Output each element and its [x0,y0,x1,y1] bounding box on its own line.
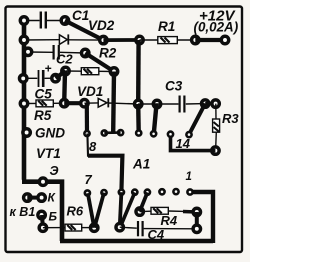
diode VD1 cathode bar [107,98,109,107]
svg-text:Б: Б [49,210,58,224]
pad ground rail C2 row [24,48,31,55]
pad ground rail VD2 row [20,36,27,43]
resistor R6 body [65,224,82,231]
svg-text:+: + [45,62,52,76]
wire base to R6 node [40,215,45,228]
pad R6 right [91,224,98,231]
pad R3 top node [212,100,219,107]
capacitor C1 leads [24,20,40,22]
pad GND node [23,129,30,136]
svg-text:C3: C3 [165,79,183,94]
svg-text:R3: R3 [222,111,239,126]
wire R1 node down to VD1 output node [136,40,141,104]
svg-text:A1: A1 [132,157,150,172]
wire junction down to A1 top pad [136,104,141,133]
svg-text:R4: R4 [161,213,178,228]
svg-text:(0,02A): (0,02A) [194,20,239,35]
pad R4 right [193,208,200,215]
wire VD2 node to R1 node [103,38,139,42]
wire pin7 to R6 right pad (diagonal) [88,193,94,228]
pad C3 left junction [153,100,160,107]
pad R2 right [110,68,117,75]
resistor R1 leads [140,39,159,41]
svg-text:VD1: VD1 [77,84,103,99]
pad C4 left node [116,224,123,231]
pad VD2 cathode node [100,36,107,43]
svg-text:R5: R5 [34,108,52,123]
capacitor C5 leads [23,77,37,79]
resistor R2 leads [66,70,82,72]
svg-text:C5: C5 [35,87,53,102]
svg-text:к B1: к B1 [10,205,36,219]
wire ground rail left vertical [22,20,27,180]
IC A1 bottom row pads [85,190,90,195]
wire pin3 diagonal to R4 left pad [140,192,148,211]
svg-text:1: 1 [186,171,192,183]
diode VD1 cathode lead [108,103,138,104]
resistor R5 leads [24,102,36,104]
capacitor C3 leads [138,103,178,105]
resistor R2 body [81,68,99,75]
wire C3 pad diagonal down to A1 pad 14-right [189,104,205,135]
wire emitter to bottom-left corner [43,182,62,241]
wire pin5 diagonal to C4 node [120,192,122,227]
diode VD1 triangle [98,98,107,107]
resistor R4 leads [140,210,152,212]
capacitor C5 plates [38,70,40,87]
diode VD2 anode lead [24,39,59,41]
svg-text:Э: Э [50,164,59,178]
svg-text:8: 8 [89,139,97,154]
wire pin6 diagonal to R6 node [94,193,104,228]
diode VD2 cathode lead [68,39,103,41]
svg-text:C4: C4 [148,227,165,242]
svg-text:GND: GND [35,126,65,141]
wire C2 pad to R2 right pad (diagonal) [85,53,114,72]
wire R4 right pad down to C4 right pad [195,212,199,229]
resistor R3 leads [215,104,217,119]
svg-text:VT1: VT1 [36,146,61,161]
svg-text:R1: R1 [158,19,175,34]
pad +12V left [192,36,199,43]
svg-text:R2: R2 [99,46,117,61]
wire ground rail corner to emitter pad [22,179,43,184]
diode VD2 triangle [59,35,67,45]
svg-text:14: 14 [176,136,191,151]
pad R2 left node A [62,67,69,74]
diode VD1 anode lead [84,102,98,104]
pad C3 right [202,100,209,107]
pad C5 right [52,75,59,82]
pad R4 left [136,208,143,215]
pad VT1 collector right [38,194,45,201]
svg-text:7: 7 [85,172,93,187]
capacitor C4 plates [137,221,139,236]
capacitor C3 plates [179,96,181,113]
pad R5 right node C [60,100,67,107]
resistor R6 leads [43,227,65,229]
resistor R5 body [36,100,53,107]
wire A1 top link pads 9-10 [104,131,120,134]
resistor R1 body [158,37,178,44]
svg-text:C1: C1 [72,8,89,23]
wire R2 right pad down to A1 top link [111,72,116,132]
wire pin14 L-trace [171,134,216,150]
diode VD2 cathode bar [67,34,69,44]
pad R1 left node [136,36,143,43]
pad C4 right [193,225,200,232]
wire C1 pad to VD2 node (diagonal) [65,21,104,41]
wire C3 junction down to A1 top pad [154,104,157,134]
pad ground rail C5 row [20,75,27,82]
wire pin8 trace [87,134,122,193]
pad ground rail R5 row [20,100,27,107]
pad VT1 base [38,211,45,218]
pad ground rail top [20,17,27,24]
capacitor C2 leads [28,51,53,53]
pad VT1 collector left [24,194,31,201]
pad C2 right [82,49,89,56]
svg-text:C2: C2 [56,52,73,67]
pad VD1 anode node D [81,100,88,107]
pad VT1 emitter [39,178,46,185]
pad C1 right [61,17,68,24]
capacitor C1 plates [40,12,42,29]
wire node A down to R5 node C [62,71,67,103]
resistor R4 body [151,207,168,214]
wire node C to VD1 anode pad [64,101,84,105]
pad +12V right [221,36,228,43]
svg-text:R6: R6 [67,204,84,219]
resistor R3 body (vertical) [213,119,220,132]
pad R3 bottom node [212,147,219,154]
wire pin4 diagonal to C4 node [121,192,135,226]
pad VD1 output junction [135,100,142,107]
board outline frame [6,7,243,253]
wire +12V pad link [195,38,225,42]
IC A1 top row pads [84,131,89,136]
wire right ground riser [190,192,213,243]
wire node A to C5 pad (diagonal) [56,71,66,78]
wire C3 right pad link [205,102,215,105]
wire collector pad link [27,196,41,200]
capacitor C2 plates [52,45,54,60]
pad R6 left node [39,224,46,231]
svg-text:VD2: VD2 [88,18,115,33]
capacitor C4 leads [120,227,137,228]
wire bottom ground run [60,239,213,243]
wire node D down to pin 8 pad [85,103,89,133]
